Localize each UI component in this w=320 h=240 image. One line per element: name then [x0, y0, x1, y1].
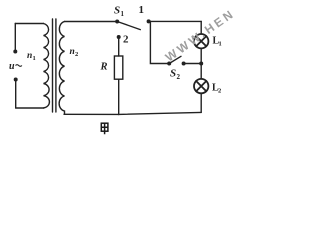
wire S2 to lamp rail: [184, 63, 202, 65]
svg-text:2: 2: [75, 51, 78, 58]
wire primary left vertical upper: [14, 24, 16, 51]
node switch S1 pivot: [115, 20, 119, 24]
wire right rail lower: [200, 93, 202, 112]
wire secondary top rail: [65, 21, 117, 23]
svg-text:2: 2: [123, 34, 129, 46]
svg-text:n: n: [27, 51, 32, 61]
wire contact 2 stub: [118, 37, 120, 56]
svg-text:1: 1: [33, 55, 36, 62]
lamp L1: [194, 34, 208, 48]
svg-text:R: R: [100, 62, 108, 73]
node contact 1: [147, 19, 151, 23]
node contact 2: [117, 35, 121, 39]
wire right rail upper: [200, 21, 202, 34]
svg-text:1: 1: [139, 4, 145, 16]
node source terminal top: [13, 50, 17, 54]
lamp L2: [194, 79, 208, 93]
svg-text:S: S: [114, 5, 120, 17]
switch S1 blade: [117, 22, 140, 30]
node S2 right contact: [182, 62, 186, 66]
inductor primary winding n1: [44, 24, 50, 109]
inductor secondary winding n2: [59, 22, 64, 115]
node source terminal bottom: [14, 78, 18, 82]
label jia (figure A) drawn strokes: [101, 123, 108, 134]
svg-text:1: 1: [219, 41, 222, 48]
svg-text:S: S: [170, 68, 176, 80]
wire inner left vertical: [150, 21, 168, 63]
wire resistor to bottom rail: [118, 79, 120, 114]
resistor R: [114, 56, 122, 79]
svg-text:n: n: [70, 47, 75, 57]
wire bottom rail: [64, 112, 201, 114]
node S2 left contact: [167, 62, 171, 66]
switch S2 blade: [169, 56, 181, 63]
svg-text:2: 2: [218, 88, 221, 95]
wire primary top rail: [15, 23, 43, 25]
wire junction to L2: [200, 64, 202, 79]
wire between L1 and junction: [200, 48, 202, 63]
svg-text:1: 1: [121, 10, 125, 18]
wire top rail right segment: [149, 20, 202, 22]
svg-text:2: 2: [177, 73, 181, 81]
wire primary left vertical lower: [15, 81, 17, 108]
svg-text:u: u: [9, 61, 15, 72]
node lamp junction: [199, 62, 203, 66]
wire primary bottom rail: [16, 107, 44, 109]
transformer core: [53, 19, 56, 112]
